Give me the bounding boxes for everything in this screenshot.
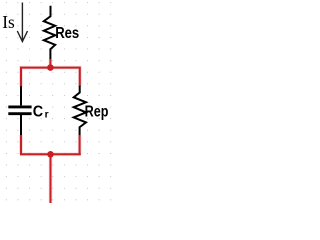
- wire bottom rail: [20, 153, 81, 155]
- svg-text:r: r: [45, 109, 49, 120]
- wire left branch bottom: [20, 135, 22, 154]
- current source arrow Is: [17, 3, 27, 42]
- svg-text:Is: Is: [2, 12, 15, 32]
- wire red net halo: [20, 59, 81, 203]
- wire top rail with branch drops: [21, 68, 80, 87]
- svg-text:C: C: [33, 104, 44, 121]
- node top junction: [47, 64, 54, 71]
- resistor Rep: [74, 86, 86, 136]
- resistor Res: [44, 6, 55, 60]
- capacitor Cr: [8, 86, 31, 135]
- wire Res bottom to top node: [49, 59, 51, 68]
- wire bottom tail: [50, 154, 52, 203]
- wire right branch bottom: [79, 135, 81, 154]
- svg-text:Rep: Rep: [85, 104, 109, 121]
- node bottom junction: [47, 151, 54, 158]
- svg-text:Res: Res: [55, 25, 79, 42]
